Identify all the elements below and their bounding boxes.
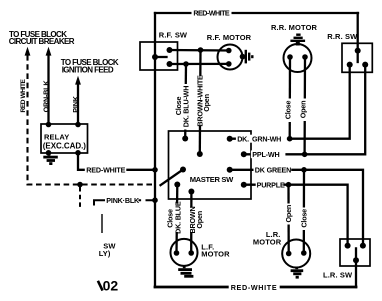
wire DK. GRN-WH to R.R. SW bbox=[230, 65, 350, 139]
arrowhead orn-blk to circuit breaker bbox=[46, 47, 52, 56]
wire BROWN open to L.F. motor bbox=[190, 192, 192, 254]
wire drop from top rail to R.R. SW bbox=[357, 13, 359, 51]
svg-text:LY): LY) bbox=[99, 249, 111, 258]
wire PINK bbox=[77, 83, 79, 124]
svg-text:Open: Open bbox=[195, 211, 204, 229]
svg-text:R.F. SW: R.F. SW bbox=[159, 31, 188, 40]
svg-text:DK. BLU-WH: DK. BLU-WH bbox=[182, 86, 191, 128]
terminal relay orn-blk bbox=[46, 122, 52, 128]
terminal R.F. SW open bbox=[167, 61, 173, 67]
label DK. GRN-WH bbox=[236, 134, 287, 143]
junction lr open / purple bbox=[286, 182, 292, 188]
switch MASTER SW box bbox=[169, 131, 252, 199]
junction dk blu-wh on lower wire bbox=[183, 61, 189, 67]
wire RED-WHITE relay to bus bbox=[78, 153, 155, 170]
wire L.R. SW to red-white rail bbox=[355, 260, 357, 287]
terminal master close front bbox=[182, 136, 188, 142]
wire PURPLE to L.R. SW bbox=[244, 185, 348, 246]
svg-text:02: 02 bbox=[103, 277, 119, 293]
motor L.R. MOTOR bbox=[282, 240, 310, 268]
label RELAY (EXC.CAD.) bbox=[43, 132, 86, 150]
switch L.R. SW box bbox=[340, 239, 370, 266]
ground L.R. motor bbox=[291, 267, 304, 278]
terminal master dk blue bbox=[174, 182, 180, 188]
arrowhead red white to circuit breaker bbox=[25, 47, 31, 56]
svg-text:PINK·BLK: PINK·BLK bbox=[106, 196, 140, 205]
svg-text:MOTOR: MOTOR bbox=[253, 238, 282, 247]
terminal L.R. SW common bbox=[353, 257, 359, 263]
terminal R.F. motor ground bbox=[240, 54, 246, 60]
ground L.F. motor bbox=[178, 266, 193, 277]
svg-text:RELAY: RELAY bbox=[44, 132, 69, 141]
label TO FUSE BLOCK IGNITION FEED bbox=[61, 58, 119, 75]
label BROWN / Open vertical bbox=[188, 207, 204, 234]
wire pink-blk dash-dot bbox=[139, 199, 153, 201]
terminal R.R. SW open bbox=[362, 62, 368, 68]
switch lever R.R. SW bbox=[357, 51, 359, 62]
label Open vertical lr bbox=[284, 204, 293, 225]
wire DK GREEN close to L.R. motor bbox=[303, 170, 306, 253]
svg-text:MASTER SW: MASTER SW bbox=[190, 175, 234, 184]
svg-text:L.R. SW: L.R. SW bbox=[323, 271, 353, 280]
svg-text:DK GREEN: DK GREEN bbox=[255, 166, 291, 175]
terminal R.F. SW close bbox=[167, 47, 173, 53]
label figure number 02 bbox=[98, 277, 118, 293]
label Open vertical rr bbox=[299, 99, 308, 122]
switch lever L.R. SW bbox=[355, 248, 357, 260]
svg-text:Close: Close bbox=[299, 209, 308, 228]
svg-text:Open: Open bbox=[284, 205, 293, 223]
label RED-WHITE relay bbox=[85, 165, 127, 174]
terminal relay pink bbox=[75, 122, 81, 128]
terminal master open front bbox=[197, 151, 203, 157]
svg-text:RED WHITE: RED WHITE bbox=[20, 78, 27, 112]
terminal master ppl-wh bbox=[241, 151, 247, 157]
svg-text:PINK: PINK bbox=[71, 95, 80, 112]
terminal master grn-wh bbox=[227, 136, 233, 142]
wire R.F. SW to motor top bbox=[170, 49, 229, 52]
junction red-white at bus bbox=[152, 167, 158, 173]
terminal master common bbox=[180, 167, 186, 173]
junction brown-white on upper wire bbox=[198, 47, 204, 53]
label PURPLE bbox=[256, 180, 285, 189]
svg-text:R.R. SW: R.R. SW bbox=[327, 32, 358, 41]
ground R.R. motor up bbox=[290, 35, 305, 46]
svg-text:ORN-BLK: ORN-BLK bbox=[41, 80, 50, 113]
terminal L.R. SW purple bbox=[345, 243, 351, 249]
terminal master brown bbox=[188, 189, 194, 195]
motor R.R. MOTOR bbox=[284, 44, 312, 72]
switch lever R.F. SW bbox=[155, 56, 167, 58]
svg-text:IGNITION FEED: IGNITION FEED bbox=[62, 66, 114, 75]
wire DK GREEN to L.R. SW bbox=[230, 170, 363, 246]
svg-text:RED-WHITE: RED-WHITE bbox=[193, 9, 230, 18]
terminal R.R. SW common bbox=[355, 48, 361, 54]
label Close vertical rr bbox=[284, 99, 293, 123]
wire DK. BLU-WH close to master bbox=[184, 64, 187, 139]
wire R.R. close bbox=[289, 57, 292, 139]
terminal master purple bbox=[241, 182, 247, 188]
terminal R.R. SW close bbox=[347, 62, 353, 68]
svg-text:PURPLE: PURPLE bbox=[257, 180, 285, 189]
label L.R. MOTOR bbox=[253, 230, 282, 247]
label DK GREEN bbox=[254, 166, 292, 175]
label Close vertical lr bbox=[299, 208, 308, 231]
svg-text:Open: Open bbox=[202, 94, 211, 112]
wire R.F. SW to motor bottom bbox=[170, 63, 229, 65]
label TO FUSE BLOCK CIRCUIT BREAKER bbox=[9, 30, 75, 46]
terminal L.R. SW green bbox=[360, 243, 366, 249]
wire PPL-WH to R.R. SW bbox=[244, 65, 365, 155]
wire pink-blk corner bbox=[94, 200, 105, 205]
junction rr close / grn-wh bbox=[287, 136, 293, 142]
svg-text:DK. GRN-WH: DK. GRN-WH bbox=[237, 134, 281, 143]
svg-text:PPL-WH: PPL-WH bbox=[252, 150, 279, 159]
wire R.R. open bbox=[303, 57, 306, 154]
label BROWN-WHITE / Open vertical bbox=[195, 75, 210, 127]
terminal relay output red-white bbox=[75, 150, 81, 156]
wire red-white top rail bbox=[155, 12, 358, 14]
junction rr open / ppl-wh bbox=[302, 152, 308, 158]
wire to cadillac switch (faded) bbox=[101, 214, 103, 233]
wire PURPLE open to L.R. motor bbox=[287, 185, 290, 254]
svg-text:Close: Close bbox=[284, 101, 293, 120]
svg-text:R.F. MOTOR: R.F. MOTOR bbox=[207, 33, 252, 42]
label SW / LY) partial bbox=[99, 242, 117, 258]
wire red-white bottom rail bbox=[155, 286, 356, 289]
terminal R.F. SW common bbox=[152, 54, 158, 60]
wire DK. BLUE close to L.F. motor bbox=[175, 185, 178, 254]
switch lever master bbox=[161, 170, 184, 186]
svg-text:Open: Open bbox=[299, 101, 308, 119]
motor R.F. MOTOR bbox=[218, 45, 243, 70]
label Close / DK. BLU-WH vertical bbox=[174, 84, 191, 130]
svg-text:R.R. MOTOR: R.R. MOTOR bbox=[271, 23, 318, 32]
switch R.R. SW box bbox=[342, 43, 372, 72]
wire RED WHITE dashed from fuse block bbox=[28, 55, 154, 185]
junction pink-blk at bus bbox=[152, 197, 158, 203]
wire pink-blk dashed stub bbox=[79, 187, 81, 207]
ground relay bbox=[43, 153, 58, 164]
svg-text:(EXC.CAD.): (EXC.CAD.) bbox=[43, 141, 86, 150]
wire BROWN-WHITE open to master bbox=[199, 50, 202, 154]
label RED-WHITE top bbox=[192, 9, 232, 18]
terminal master dk green bbox=[227, 167, 233, 173]
svg-text:RED-WHITE: RED-WHITE bbox=[231, 283, 278, 292]
label RED-WHITE bottom bbox=[229, 283, 280, 292]
motor L.F. MOTOR bbox=[171, 239, 198, 266]
ground R.F. motor sideways bbox=[243, 50, 253, 64]
switch R.F. SW box bbox=[140, 42, 178, 70]
wire ORN-BLK bbox=[47, 54, 49, 124]
junction lr close / dk green bbox=[301, 167, 307, 173]
junction red-white dashed / pink-blk drop bbox=[77, 182, 83, 188]
svg-text:MOTOR: MOTOR bbox=[201, 250, 230, 259]
svg-text:RED-WHITE: RED-WHITE bbox=[86, 165, 125, 174]
svg-text:CIRCUIT BREAKER: CIRCUIT BREAKER bbox=[9, 37, 75, 46]
label PPL-WH bbox=[251, 150, 286, 159]
arrowhead pink to ignition feed bbox=[75, 76, 81, 85]
label Close / DK. BLUE vertical bbox=[165, 201, 182, 234]
label L.F. MOTOR bbox=[201, 242, 230, 258]
relay box (EXC. CAD.) bbox=[41, 124, 88, 153]
terminal relay ground bbox=[46, 150, 52, 156]
wire left vertical red-white bus bbox=[154, 13, 156, 287]
svg-text:DK. BLUE: DK. BLUE bbox=[174, 201, 183, 234]
